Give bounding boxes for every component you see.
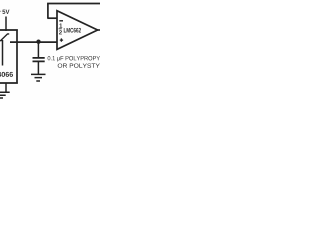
- node 5V supply label fragment (cut at left edge): [0, 10, 1, 12]
- label 4066 (cut at left edge): [0, 72, 13, 77]
- wire inverting input lead: [47, 17, 57, 19]
- switch S1 left contact stub: [0, 40, 3, 42]
- op-amp non-inverting input plus sign: [60, 38, 63, 41]
- op-amp U2 triangle: [57, 11, 98, 50]
- wire capacitor to ground: [37, 61, 39, 74]
- label OR POLYSTYRENE (cropped at right edge): [58, 63, 118, 67]
- node 5V supply label: [2, 10, 9, 14]
- wire switch output to op-amp +input: [10, 41, 57, 43]
- wire 5V to switch box: [5, 17, 7, 32]
- label 0.1uF POLYPROPYLENE (cropped at right edge): [48, 56, 115, 61]
- op-amp inverting input minus sign: [59, 20, 63, 22]
- switch IC U1 box (4066, left side cropped): [0, 30, 18, 83]
- label 1/2 fraction denominator: [59, 30, 62, 34]
- switch S1 lever: [0, 34, 9, 41]
- label 1/2 fraction bar: [59, 28, 62, 30]
- label 1/2 fraction numerator: [59, 23, 62, 27]
- capacitor C1 0.1uF plates: [33, 58, 45, 62]
- wire feedback vertical: [47, 4, 49, 19]
- label LMC662: [64, 28, 81, 33]
- wire op-amp output stub: [97, 29, 101, 31]
- wire feedback top (to output, cropped at right edge): [47, 3, 100, 5]
- wire junction to capacitor: [37, 42, 39, 58]
- switch S1 contact lead down: [2, 40, 4, 66]
- ground under capacitor: [31, 74, 46, 81]
- ground under box (cropped at left edge): [0, 92, 10, 98]
- node junction dot: [36, 40, 40, 44]
- wire box bottom to ground: [5, 83, 7, 92]
